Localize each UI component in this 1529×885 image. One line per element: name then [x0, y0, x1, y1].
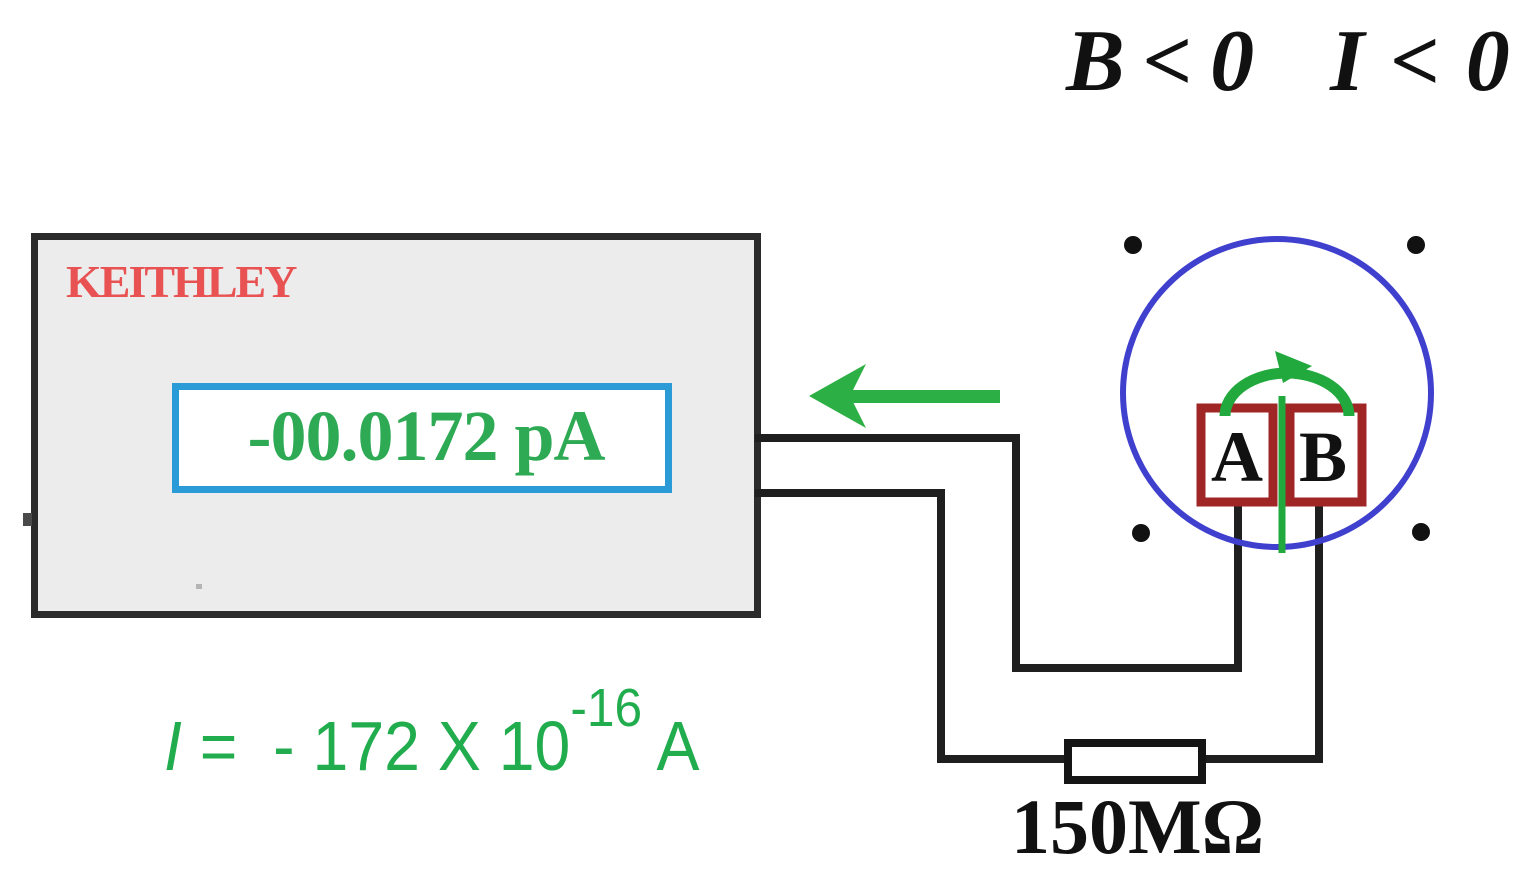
node field dot bottom-right — [1412, 523, 1430, 541]
sample boundary blue circle — [1123, 239, 1431, 547]
label current value I = -172 x 10^-16 A — [164, 706, 699, 786]
current rotation arc arrow — [1225, 351, 1349, 416]
node stray mark inside instrument — [196, 584, 202, 589]
wire upper from electrometer to contact A — [755, 438, 1238, 668]
op-amp U1 KEITHLEY electrometer body — [31, 233, 761, 618]
node field dot bottom-left — [1132, 524, 1150, 542]
node field dot top-right — [1407, 236, 1425, 254]
node stray nub on left border — [23, 513, 32, 526]
label resistor value 150MOhm — [1011, 782, 1264, 872]
display readout -00.0172 pA — [172, 383, 672, 493]
node B&lt;0 I&lt;0 annotation — [1066, 11, 1514, 112]
current direction arrow toward electrometer — [809, 364, 1000, 428]
label KEITHLEY — [66, 255, 295, 308]
node field dot top-left — [1124, 236, 1142, 254]
label contact A — [1201, 408, 1273, 502]
wire from resistor to contact B — [1206, 503, 1319, 759]
contact pad B box — [1290, 408, 1362, 502]
wire green axis through sample — [1279, 396, 1286, 553]
contact pad A box — [1201, 408, 1273, 502]
resistor R1 150 Mohm body — [1068, 743, 1202, 780]
label contact B — [1287, 408, 1359, 502]
wire lower from electrometer to resistor — [755, 493, 1064, 759]
